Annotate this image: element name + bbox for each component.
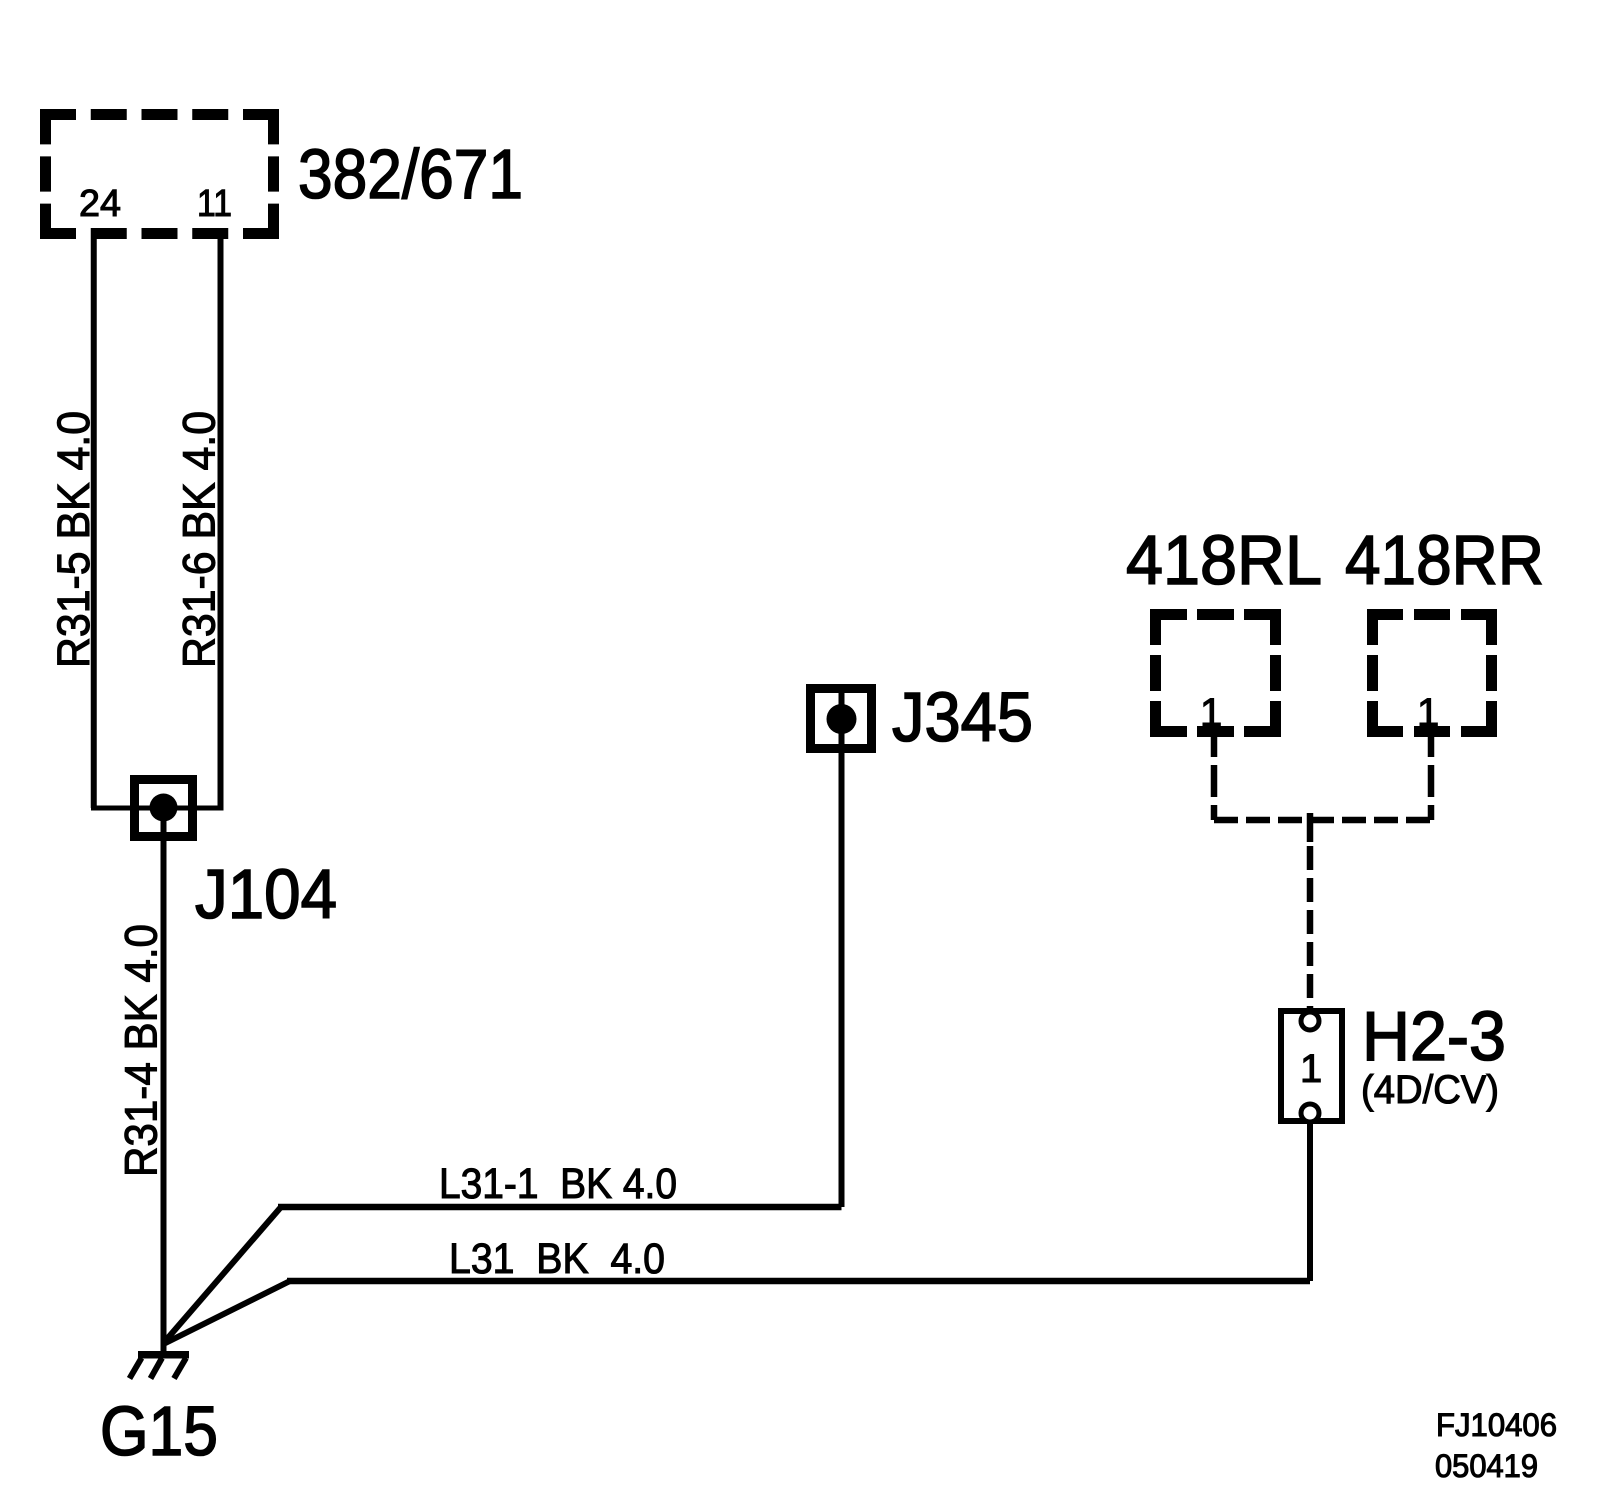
wire from H2-3 down to L31 xyxy=(1307,1122,1313,1281)
svg-text:418RL: 418RL xyxy=(1126,521,1322,599)
junction J345 box xyxy=(811,689,872,749)
junction J345 dot xyxy=(827,704,857,734)
wire lower slant from ground to L31 xyxy=(164,1281,291,1344)
H2-3 bottom terminal circle xyxy=(1301,1104,1319,1122)
junction J104 dot xyxy=(150,794,178,822)
connector 418RL dashed box xyxy=(1150,609,1281,737)
H2-3 top terminal circle xyxy=(1301,1012,1319,1030)
wire upper slant from ground to L31-1 xyxy=(164,1207,282,1343)
ground G15 hatches xyxy=(130,1358,187,1379)
ground G15 bar xyxy=(138,1351,189,1359)
connector 418RR dashed box xyxy=(1367,609,1497,737)
wire R31-5 from pin 24 xyxy=(91,239,97,808)
dashed wire down to H2-3 xyxy=(1307,846,1314,1008)
svg-text:FJ10406: FJ10406 xyxy=(1436,1407,1557,1443)
wire from J345 down to L31-1 xyxy=(839,687,845,1207)
wire L31-1 horizontal xyxy=(278,1204,842,1211)
bulb H2-3 box xyxy=(1281,1011,1342,1121)
junction tick on dashed wire xyxy=(1307,813,1314,842)
wire L31 horizontal xyxy=(287,1278,1310,1285)
dashed wire horizontal joining 418RL/418RR xyxy=(1214,817,1431,824)
dashed wire from 418RL pin 1 xyxy=(1211,725,1218,820)
svg-text:11: 11 xyxy=(197,183,232,225)
wire R31-4 from J104 to ground xyxy=(161,808,167,1352)
svg-text:050419: 050419 xyxy=(1435,1448,1538,1484)
svg-text:J345: J345 xyxy=(892,678,1033,756)
svg-text:L31 BK 4.0: L31 BK 4.0 xyxy=(449,1235,665,1283)
dashed wire from 418RR pin 1 xyxy=(1428,725,1435,820)
svg-text:(4D/CV): (4D/CV) xyxy=(1361,1068,1499,1112)
junction J104 box xyxy=(135,780,193,837)
wire R31-6 from pin 11 xyxy=(218,239,224,808)
svg-text:R31-5 BK 4.0: R31-5 BK 4.0 xyxy=(48,411,99,668)
svg-text:R31-6 BK 4.0: R31-6 BK 4.0 xyxy=(174,411,225,668)
svg-text:H2-3: H2-3 xyxy=(1362,997,1506,1075)
svg-text:L31-1 BK 4.0: L31-1 BK 4.0 xyxy=(439,1160,677,1208)
svg-text:J104: J104 xyxy=(195,855,337,933)
svg-text:1: 1 xyxy=(1300,1047,1322,1091)
wire horizontal connector at J104 xyxy=(91,806,224,811)
svg-text:G15: G15 xyxy=(100,1392,218,1470)
svg-text:R31-4 BK 4.0: R31-4 BK 4.0 xyxy=(116,924,167,1177)
connector 382/671 dashed box xyxy=(40,109,279,239)
svg-text:382/671: 382/671 xyxy=(298,135,523,213)
svg-text:24: 24 xyxy=(79,183,121,225)
svg-text:418RR: 418RR xyxy=(1345,521,1544,599)
